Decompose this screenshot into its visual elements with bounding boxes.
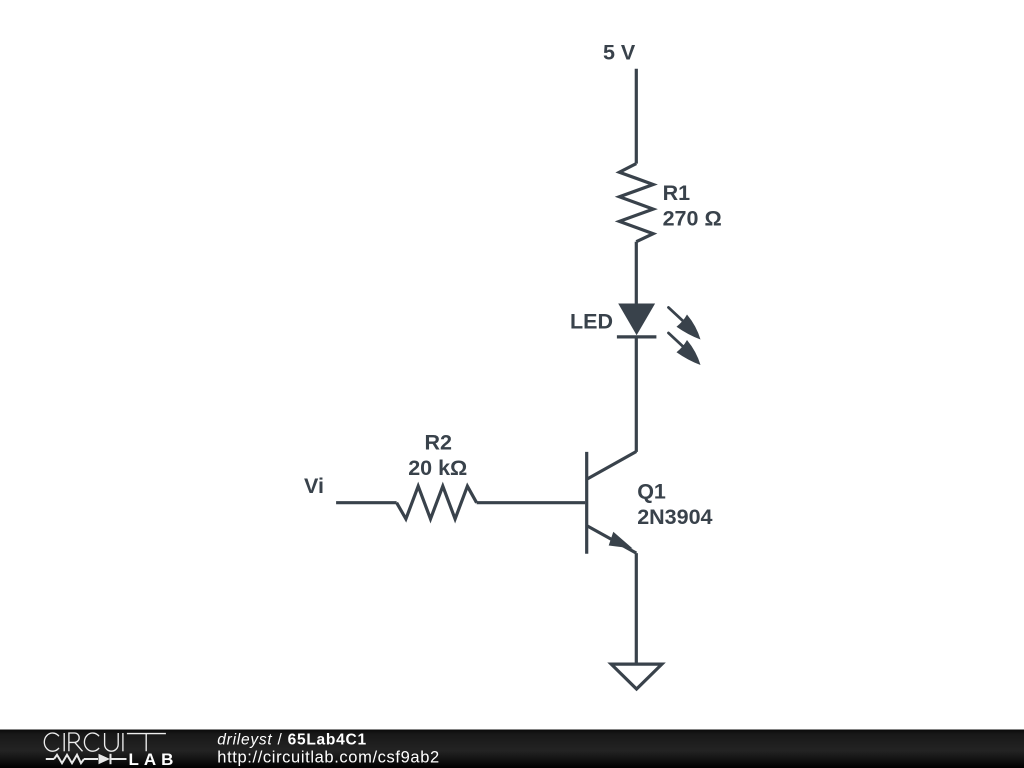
svg-text:LED: LED [570,310,613,334]
logo wire glyph [46,754,127,764]
ground symbol [611,664,662,689]
svg-text:20 kΩ: 20 kΩ [408,456,467,480]
svg-text:Q1: Q1 [637,480,666,504]
wire LED cathode to Q1 collector [635,337,638,452]
LED light arrow 1 [669,308,701,340]
wire 5V to R1 [635,69,638,164]
wire R1 to LED anode [635,242,638,305]
svg-text:R1: R1 [663,181,691,205]
LED D1 triangle [618,304,655,336]
svg-text:R2: R2 [425,430,453,454]
svg-text:LAB: LAB [129,750,179,768]
Q1 base bar [585,452,588,554]
logo CIRCUIT text [44,733,166,751]
Q1 emitter diagonal [587,526,636,553]
wire R2 to Q1 base [477,501,586,504]
svg-text:Vi: Vi [304,474,324,498]
LED light arrow 2 [669,333,701,365]
LED cathode bar [617,335,657,338]
wire Q1 emitter to ground [635,553,638,664]
svg-text:2N3904: 2N3904 [637,505,712,529]
svg-text:http://circuitlab.com/csf9ab2: http://circuitlab.com/csf9ab2 [217,749,439,767]
resistor R2 [397,486,477,519]
resistor R1 [619,164,653,242]
transistor Q1 [587,452,637,554]
wire Vi to R2 [336,501,397,504]
Q1 emitter arrow [609,532,633,549]
svg-text:drileyst / 65Lab4C1: drileyst / 65Lab4C1 [217,732,367,749]
svg-text:5 V: 5 V [603,41,636,65]
Q1 collector diagonal [587,452,636,479]
svg-text:270 Ω: 270 Ω [663,207,722,231]
